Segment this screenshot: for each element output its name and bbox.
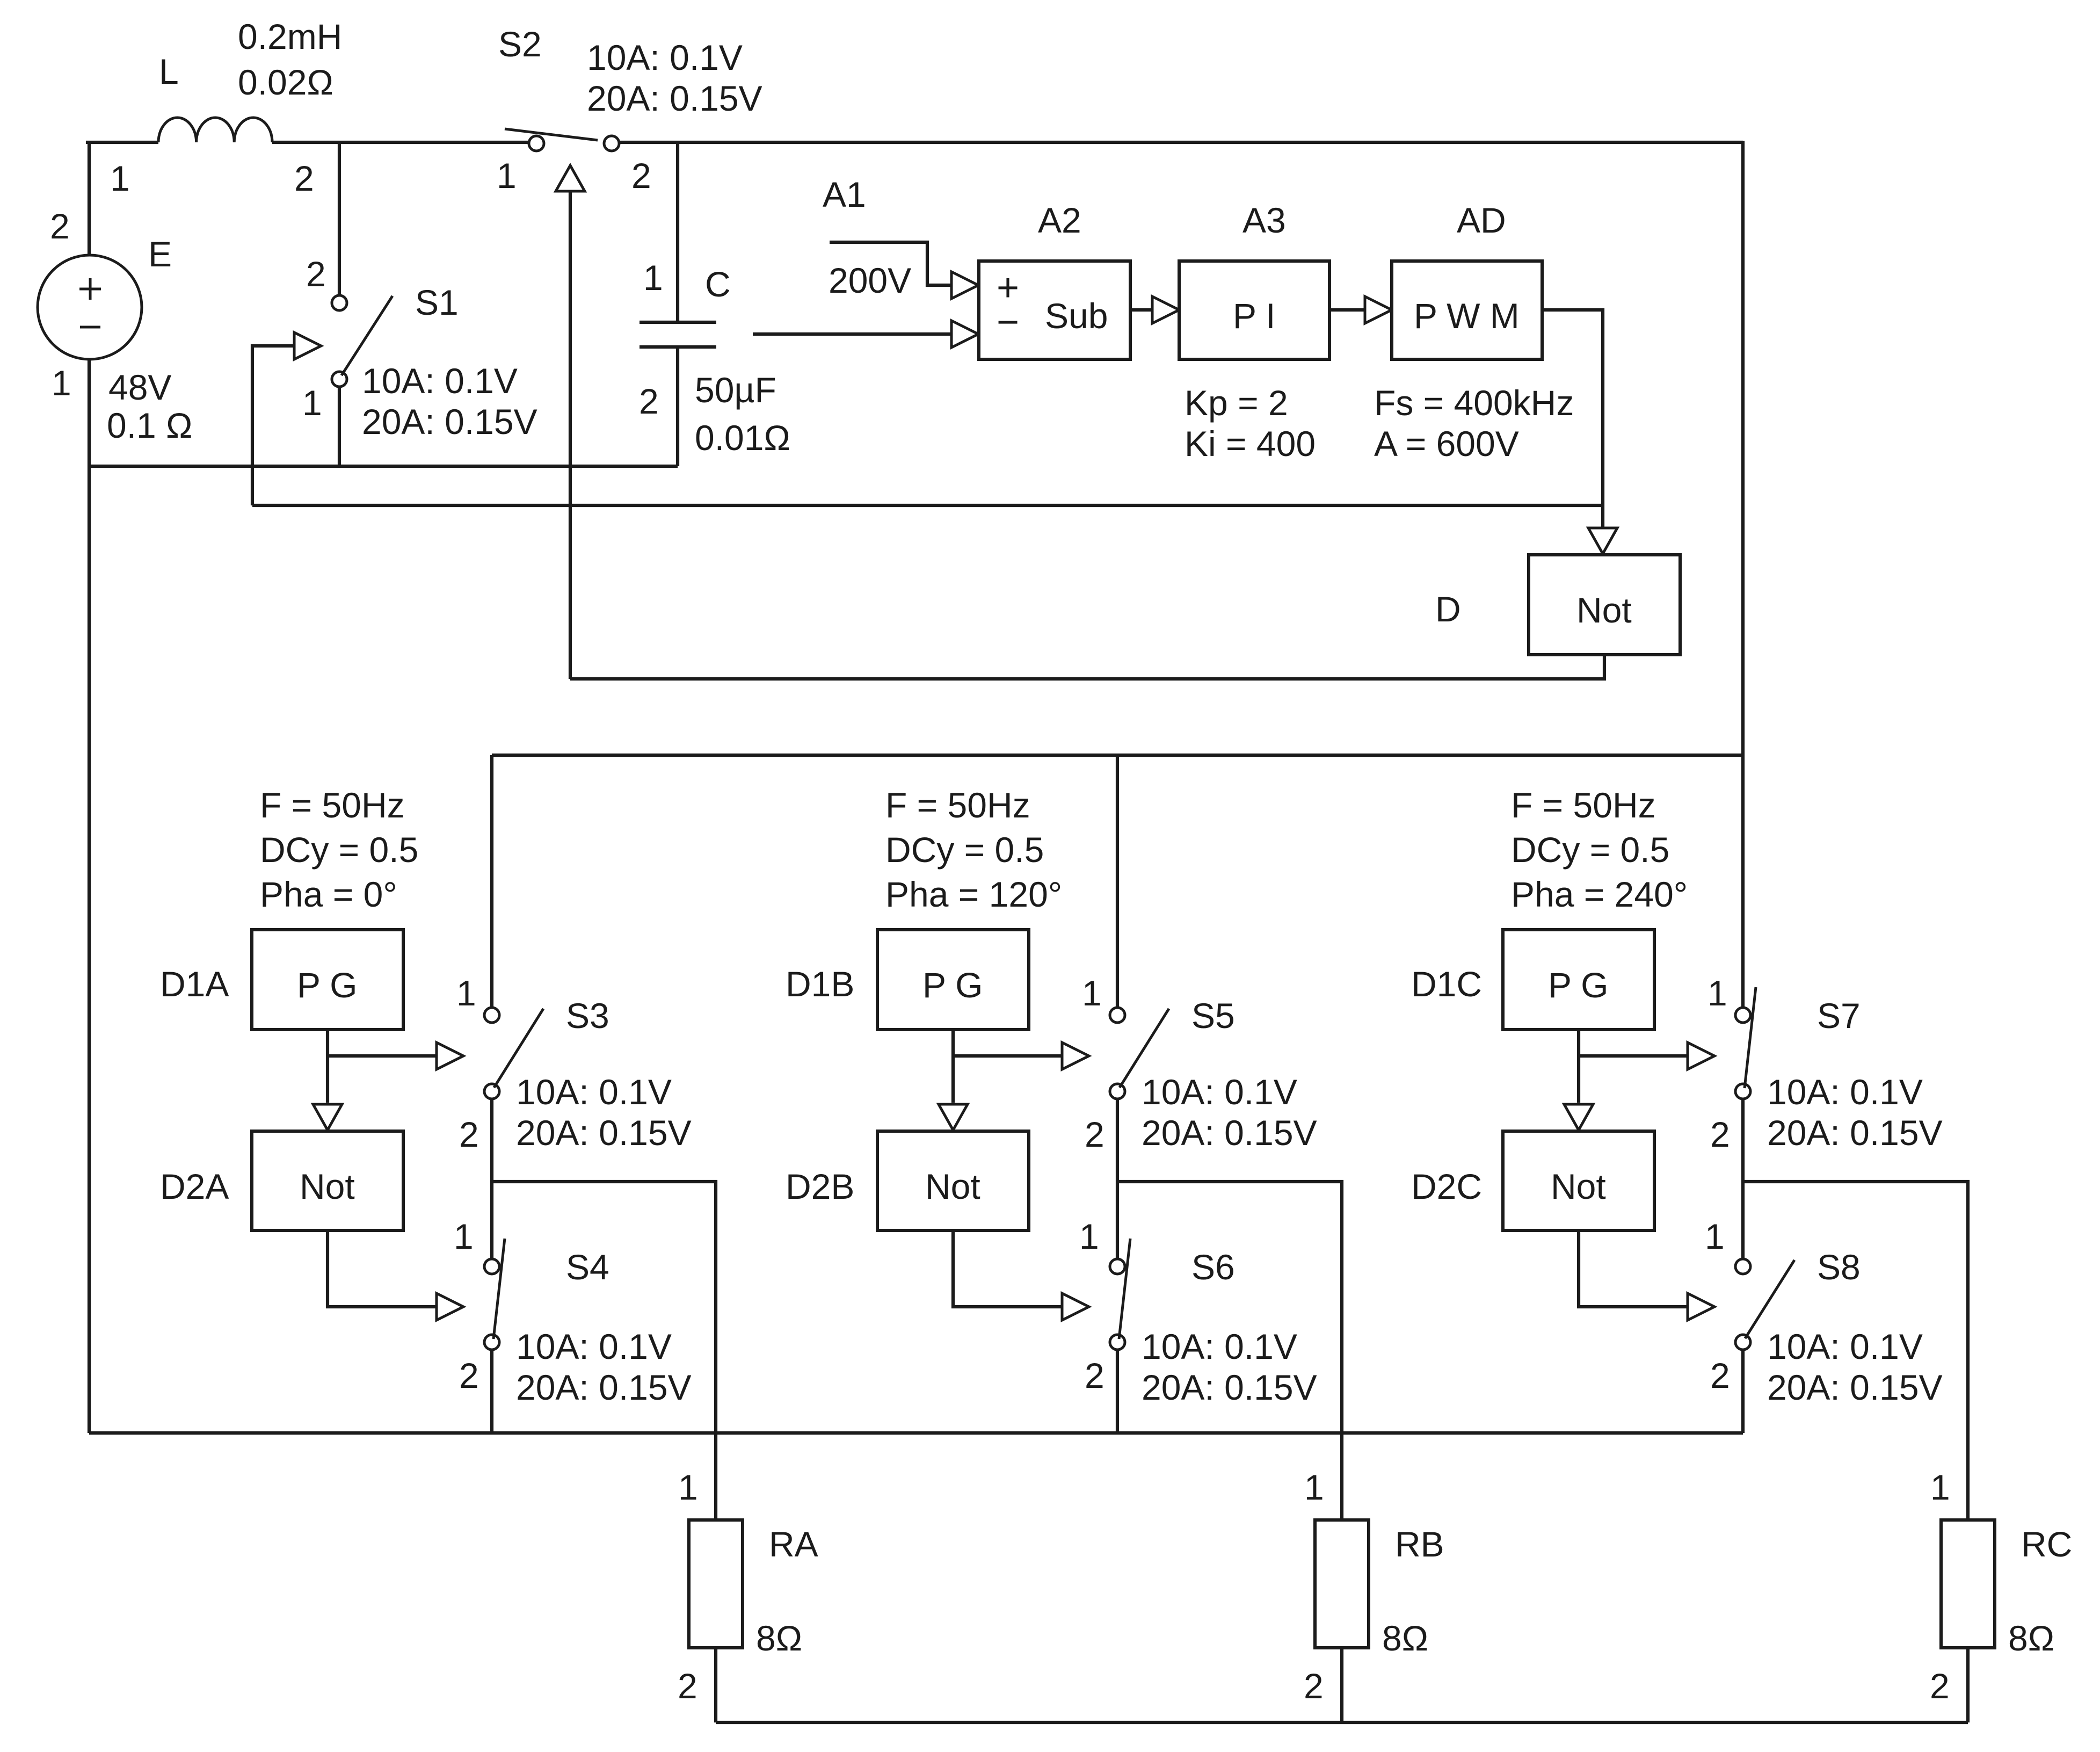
svg-text:2: 2 xyxy=(631,156,651,196)
svg-text:1: 1 xyxy=(52,363,71,403)
wire inverter positive bus xyxy=(492,754,1743,757)
svg-text:RA: RA xyxy=(769,1524,818,1564)
svg-text:C: C xyxy=(705,264,731,304)
resistor RC xyxy=(1941,1520,1995,1648)
svg-text:10A: 0.1V: 10A: 0.1V xyxy=(516,1327,672,1366)
S5 gate arrow xyxy=(1062,1042,1089,1069)
S5 ratings label xyxy=(1142,1072,1317,1153)
svg-text:10A: 0.1V: 10A: 0.1V xyxy=(362,361,518,401)
S7 gate arrow xyxy=(1688,1042,1714,1069)
svg-text:S2: S2 xyxy=(498,24,542,64)
svg-text:1: 1 xyxy=(678,1467,698,1507)
svg-text:10A: 0.1V: 10A: 0.1V xyxy=(587,38,743,77)
S4 gate arrow xyxy=(437,1293,463,1320)
logic block D2C Not xyxy=(1503,1131,1654,1230)
svg-text:−: − xyxy=(997,301,1019,344)
svg-text:F = 50Hz: F = 50Hz xyxy=(885,785,1030,825)
svg-text:0.02Ω: 0.02Ω xyxy=(238,62,333,102)
wire load neutral rail xyxy=(716,1721,1968,1724)
label F DCy Pha (D1B) xyxy=(885,785,1062,914)
svg-text:A3: A3 xyxy=(1242,200,1286,240)
wire S7-S8 interconnect xyxy=(1741,1099,1745,1259)
svg-text:RC: RC xyxy=(2021,1524,2072,1564)
svg-text:D1A: D1A xyxy=(160,964,229,1004)
wire Not output to S4 gate xyxy=(328,1230,438,1307)
svg-text:A1: A1 xyxy=(823,175,866,214)
switch S6 xyxy=(1110,1239,1130,1350)
logic block D2B Not xyxy=(877,1131,1029,1230)
svg-text:50µF: 50µF xyxy=(695,370,776,410)
svg-text:1: 1 xyxy=(643,258,663,298)
svg-text:2: 2 xyxy=(1304,1666,1324,1706)
wire S3-S4 interconnect xyxy=(490,1099,493,1259)
svg-text:Pha = 0°: Pha = 0° xyxy=(260,874,397,914)
PG to Not arrow (D2B) xyxy=(939,1104,968,1130)
wire RA bottom xyxy=(714,1648,717,1722)
svg-text:2: 2 xyxy=(50,206,70,246)
svg-text:20A: 0.15V: 20A: 0.15V xyxy=(1142,1113,1317,1153)
svg-text:DCy = 0.5: DCy = 0.5 xyxy=(885,830,1044,870)
wire phase output (RC feed) xyxy=(1743,1182,1968,1520)
svg-text:2: 2 xyxy=(459,1356,479,1395)
svg-text:P G: P G xyxy=(1548,965,1609,1005)
svg-text:20A: 0.15V: 20A: 0.15V xyxy=(1142,1367,1317,1407)
wire bottom bus of source loop xyxy=(88,465,678,468)
svg-text:Fs = 400kHz: Fs = 400kHz xyxy=(1374,383,1574,423)
svg-text:S1: S1 xyxy=(415,283,459,322)
switch S1 xyxy=(332,295,393,387)
svg-text:48V: 48V xyxy=(108,367,171,407)
svg-text:200V: 200V xyxy=(829,260,911,300)
svg-text:10A: 0.1V: 10A: 0.1V xyxy=(1142,1072,1297,1112)
switch S7 xyxy=(1735,987,1756,1099)
S6 ratings label xyxy=(1142,1327,1317,1407)
label Fs A xyxy=(1374,383,1574,464)
svg-text:D2B: D2B xyxy=(786,1167,854,1206)
wire S1 branch drop xyxy=(338,142,341,295)
svg-text:D1C: D1C xyxy=(1411,964,1482,1004)
wire right rail xyxy=(1741,141,1745,1008)
Sub minus input arrow xyxy=(951,321,978,347)
svg-text:10A: 0.1V: 10A: 0.1V xyxy=(1767,1072,1923,1112)
wire top bus right xyxy=(619,141,1743,144)
capacitor C branch top wire xyxy=(676,142,679,322)
svg-text:D2A: D2A xyxy=(160,1167,229,1206)
wire phase output (RA feed) xyxy=(492,1182,716,1520)
block A3 PI xyxy=(1179,261,1329,359)
svg-text:Kp = 2: Kp = 2 xyxy=(1185,383,1288,423)
svg-text:2: 2 xyxy=(1085,1356,1105,1395)
wire RC bottom xyxy=(1966,1648,1970,1722)
svg-text:F = 50Hz: F = 50Hz xyxy=(1511,785,1656,825)
label F DCy Pha (D1A) xyxy=(260,785,418,914)
capacitor C xyxy=(640,322,716,347)
svg-text:2: 2 xyxy=(459,1114,479,1154)
wire S3 leg drop xyxy=(490,755,493,1008)
svg-text:10A: 0.1V: 10A: 0.1V xyxy=(516,1072,672,1112)
svg-text:2: 2 xyxy=(306,254,326,294)
svg-text:Pha = 240°: Pha = 240° xyxy=(1511,874,1688,914)
svg-text:8Ω: 8Ω xyxy=(1382,1618,1428,1658)
wire phase output (RB feed) xyxy=(1117,1182,1342,1520)
pulse generator D1A PG xyxy=(252,930,403,1030)
svg-text:2: 2 xyxy=(1085,1114,1105,1154)
label F DCy Pha (D1C) xyxy=(1511,785,1688,914)
svg-text:Ki = 400: Ki = 400 xyxy=(1185,424,1316,464)
svg-text:1: 1 xyxy=(1304,1467,1324,1507)
pulse generator D1C PG xyxy=(1503,930,1654,1030)
wire RB bottom xyxy=(1340,1648,1343,1722)
svg-text:20A: 0.15V: 20A: 0.15V xyxy=(1767,1113,1943,1153)
svg-text:1: 1 xyxy=(110,158,130,198)
node Vo sense wire to Sub minus xyxy=(753,332,954,336)
Not D input arrow xyxy=(1588,528,1617,554)
logic block D2A Not xyxy=(252,1131,403,1230)
block D Not xyxy=(1529,555,1680,655)
S2 gate arrow xyxy=(556,165,585,191)
label 48V 0.1ohm xyxy=(107,367,192,445)
capacitor C bottom wire xyxy=(676,347,679,466)
svg-text:AD: AD xyxy=(1457,200,1506,240)
S1 gate arrow xyxy=(294,332,321,359)
svg-text:20A: 0.15V: 20A: 0.15V xyxy=(1767,1367,1943,1407)
svg-text:D2C: D2C xyxy=(1411,1167,1482,1206)
S1 ratings label xyxy=(362,361,537,441)
svg-text:2: 2 xyxy=(1710,1114,1730,1154)
svg-text:20A: 0.15V: 20A: 0.15V xyxy=(516,1367,692,1407)
svg-text:1: 1 xyxy=(1082,973,1102,1013)
wire left rail xyxy=(88,359,91,1433)
block AD PWM xyxy=(1392,261,1542,359)
svg-text:20A: 0.15V: 20A: 0.15V xyxy=(362,402,537,441)
label 0.2mH 0.02ohm xyxy=(238,17,342,102)
wire top bus left xyxy=(88,142,158,144)
svg-text:P I: P I xyxy=(1233,296,1276,336)
wire S6 bottom drop xyxy=(1116,1350,1119,1433)
svg-text:1: 1 xyxy=(497,156,517,196)
svg-text:1: 1 xyxy=(456,973,476,1013)
svg-text:1: 1 xyxy=(454,1217,474,1256)
wire PWM to Not D xyxy=(1601,505,1604,531)
Sub plus input arrow xyxy=(951,272,978,299)
svg-text:0.1 Ω: 0.1 Ω xyxy=(107,406,192,445)
source A1 xyxy=(830,242,954,285)
svg-text:1: 1 xyxy=(1930,1467,1950,1507)
svg-text:Not: Not xyxy=(925,1167,980,1206)
PI input arrow xyxy=(1152,296,1179,323)
svg-text:0.01Ω: 0.01Ω xyxy=(695,418,790,458)
svg-text:8Ω: 8Ω xyxy=(756,1618,802,1658)
svg-text:20A: 0.15V: 20A: 0.15V xyxy=(587,78,762,118)
svg-text:L: L xyxy=(159,52,179,91)
wire PI to PWM xyxy=(1329,308,1366,312)
op block A2 Sub xyxy=(979,261,1130,359)
svg-text:2: 2 xyxy=(1930,1666,1950,1706)
S2 ratings label xyxy=(587,38,762,118)
svg-text:Not: Not xyxy=(300,1167,355,1206)
svg-text:1: 1 xyxy=(1707,973,1727,1013)
svg-text:DCy = 0.5: DCy = 0.5 xyxy=(1511,830,1669,870)
svg-text:RB: RB xyxy=(1395,1524,1444,1564)
wire S4 bottom drop xyxy=(490,1350,493,1433)
svg-text:2: 2 xyxy=(678,1666,697,1706)
svg-text:S8: S8 xyxy=(1817,1247,1861,1287)
svg-text:2: 2 xyxy=(1710,1356,1730,1395)
svg-text:1: 1 xyxy=(1705,1217,1725,1256)
wire S5-S6 interconnect xyxy=(1116,1099,1119,1259)
svg-text:1: 1 xyxy=(302,383,322,423)
voltage source E xyxy=(38,255,142,359)
svg-text:Not: Not xyxy=(1576,590,1632,630)
svg-text:10A: 0.1V: 10A: 0.1V xyxy=(1767,1327,1923,1366)
switch S3 xyxy=(484,1008,543,1099)
wire PG gate branch to S5 xyxy=(953,1054,1064,1058)
svg-text:S3: S3 xyxy=(566,996,609,1036)
switch S4 xyxy=(484,1239,505,1350)
wire inverter negative bus xyxy=(89,1431,1743,1435)
wire S1 pin1 drop xyxy=(338,387,341,466)
S8 ratings label xyxy=(1767,1327,1943,1407)
svg-text:S6: S6 xyxy=(1191,1247,1235,1287)
label 50uF 0.01ohm xyxy=(695,370,790,458)
wire PG gate branch to S7 xyxy=(1579,1054,1689,1058)
svg-text:S7: S7 xyxy=(1817,996,1861,1036)
wire Not output to S6 gate xyxy=(953,1230,1064,1307)
S8 gate arrow xyxy=(1688,1293,1714,1320)
svg-text:D: D xyxy=(1435,589,1461,629)
wire S5 leg drop xyxy=(1116,755,1119,1008)
svg-text:P G: P G xyxy=(922,965,983,1005)
svg-text:D1B: D1B xyxy=(786,964,854,1004)
wire S1 gate xyxy=(252,346,294,505)
inductor L xyxy=(158,118,272,142)
wire Not output to S8 gate xyxy=(1579,1230,1689,1307)
S4 ratings label xyxy=(516,1327,692,1407)
S6 gate arrow xyxy=(1062,1293,1089,1320)
svg-text:1: 1 xyxy=(1079,1217,1099,1256)
svg-text:20A: 0.15V: 20A: 0.15V xyxy=(516,1113,692,1153)
label Kp Ki xyxy=(1185,383,1316,464)
PG to Not arrow (D2A) xyxy=(313,1104,342,1130)
wire Sub to PI xyxy=(1130,308,1153,312)
svg-text:2: 2 xyxy=(294,158,314,198)
svg-text:S4: S4 xyxy=(566,1247,609,1287)
pulse generator D1B PG xyxy=(877,930,1029,1030)
svg-text:E: E xyxy=(148,234,172,274)
svg-text:8Ω: 8Ω xyxy=(2008,1618,2054,1658)
PG to Not arrow (D2C) xyxy=(1564,1104,1593,1130)
wire PG output riser (D1A) xyxy=(326,1030,329,1103)
wire E top riser xyxy=(88,142,91,255)
svg-text:S5: S5 xyxy=(1191,996,1235,1036)
wire top bus mid xyxy=(272,141,529,144)
S7 ratings label xyxy=(1767,1072,1943,1153)
wire gate feedback to S1 xyxy=(252,504,1603,507)
svg-text:P G: P G xyxy=(297,965,358,1005)
svg-text:2: 2 xyxy=(639,381,659,421)
svg-text:10A: 0.1V: 10A: 0.1V xyxy=(1142,1327,1297,1366)
wire PG output riser (D1B) xyxy=(951,1030,955,1103)
switch S8 xyxy=(1735,1259,1794,1350)
wire Not D output to S2 gate xyxy=(570,655,1604,679)
wire S8 bottom drop xyxy=(1741,1350,1745,1433)
svg-text:Sub: Sub xyxy=(1045,296,1108,336)
svg-text:P W M: P W M xyxy=(1414,296,1520,336)
svg-text:0.2mH: 0.2mH xyxy=(238,17,342,56)
wire PWM output xyxy=(1542,310,1603,505)
wire PG gate branch to S3 xyxy=(328,1054,438,1058)
wire S2 gate riser xyxy=(569,191,572,679)
svg-text:Pha = 120°: Pha = 120° xyxy=(885,874,1062,914)
S3 gate arrow xyxy=(437,1042,463,1069)
resistor RA xyxy=(689,1520,743,1648)
wire PG output riser (D1C) xyxy=(1577,1030,1580,1103)
svg-text:DCy = 0.5: DCy = 0.5 xyxy=(260,830,418,870)
PWM input arrow xyxy=(1365,296,1392,323)
resistor RB xyxy=(1315,1520,1369,1648)
switch S2 xyxy=(505,129,619,151)
switch S5 xyxy=(1110,1008,1169,1099)
S3 ratings label xyxy=(516,1072,692,1153)
svg-text:A2: A2 xyxy=(1038,200,1081,240)
svg-text:Not: Not xyxy=(1551,1167,1606,1206)
svg-text:A = 600V: A = 600V xyxy=(1374,424,1519,464)
svg-text:F = 50Hz: F = 50Hz xyxy=(260,785,405,825)
